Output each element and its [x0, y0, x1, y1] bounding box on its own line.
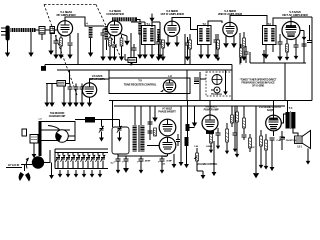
IF transformer T-3 box	[263, 26, 277, 45]
capacitor C-15	[80, 87, 85, 89]
ground speaker	[306, 157, 311, 165]
speaker magnet	[295, 136, 303, 144]
output transformer core	[289, 111, 291, 129]
wire C-26 stub	[245, 46, 247, 52]
potentiometer R-14	[196, 153, 199, 161]
wire trimmer drop 8	[92, 152, 94, 155]
ground AF input 2	[49, 98, 54, 107]
wire R-12 tail	[210, 143, 212, 146]
ground below antenna	[5, 48, 10, 57]
ground V-6	[87, 98, 92, 107]
wire C-24 drop	[271, 140, 273, 163]
ground switch	[49, 171, 54, 179]
capacitor C-26	[244, 52, 249, 54]
wire trimmer tail 9	[97, 161, 99, 169]
motor B-1	[32, 156, 44, 168]
wire C-20 feed	[161, 156, 163, 159]
T-1 primary winding	[143, 28, 146, 42]
switch lever S-1	[26, 158, 29, 169]
ground grid leak	[48, 46, 53, 55]
tube V-1	[57, 21, 72, 36]
resistor R-5	[189, 40, 192, 49]
wire mid drop A	[180, 105, 182, 107]
ground trimmer 2	[66, 170, 71, 178]
wire V-8 cathode drop	[167, 154, 169, 156]
wire AF input lead	[46, 83, 57, 85]
coil L-5	[105, 26, 109, 40]
wire R-10 out	[66, 83, 71, 85]
wire plate to B+ riser	[291, 16, 312, 18]
ground trimmer 1	[58, 170, 63, 178]
capacitor C-17	[116, 159, 121, 161]
wire B+ bus lower	[57, 69, 232, 71]
resistor R-18	[243, 118, 246, 128]
capacitor C-30	[148, 131, 153, 133]
svg-text:20 MF: 20 MF	[166, 161, 172, 163]
wire R-13 stub	[226, 123, 228, 129]
resistor R-25 on bus	[128, 58, 137, 63]
ground AF input	[44, 98, 49, 107]
wire chassis rail lower	[114, 105, 285, 107]
IF transformer T-2 box	[198, 26, 212, 45]
wire det bus	[250, 62, 306, 64]
capacitor C-6	[112, 45, 117, 47]
output transformer T-4 secondary	[291, 112, 295, 129]
wire L-4 bottom	[90, 38, 92, 48]
trimmer C-23	[70, 155, 75, 162]
wire V-4 grid2 drop	[233, 36, 235, 39]
tube V-4	[223, 22, 237, 36]
ground L-4	[88, 48, 93, 57]
wire trimmer drop B	[119, 120, 121, 127]
ground trimmer 6	[98, 170, 103, 178]
ground R-7	[241, 52, 246, 61]
wire AF input ground drop	[46, 84, 48, 99]
coil L-4	[89, 26, 93, 39]
wire T-4 top feed	[287, 101, 289, 113]
ground inside dial box	[223, 88, 228, 96]
svg-text:CHANGER UNIT: CHANGER UNIT	[49, 115, 66, 118]
ground R-12	[209, 146, 213, 153]
wire C-27 drop	[69, 84, 71, 88]
wire antenna ground drop	[7, 41, 9, 49]
ground coupling	[184, 160, 189, 168]
wire R-9 stub	[240, 44, 242, 48]
wire C-12 drop	[279, 34, 281, 42]
wire coil ground drop	[30, 32, 32, 48]
ground R-4	[160, 52, 165, 61]
wire trimmer drop 1	[57, 152, 59, 155]
ground C-12	[277, 52, 282, 61]
ground trimmer 4	[82, 170, 87, 178]
wire C-21 drop	[217, 128, 219, 133]
ground R-24	[264, 162, 269, 170]
wire R-23 tail	[249, 134, 251, 138]
capacitor C-29	[148, 122, 153, 124]
svg-text:TO GRILLE: TO GRILLE	[211, 94, 222, 96]
phono trimmer B	[117, 126, 122, 133]
wire T-2 to V-4	[208, 21, 222, 27]
antenna coil L-2	[11, 28, 36, 32]
ground C-13	[294, 52, 299, 60]
wire C-6 ground	[114, 47, 116, 52]
wire meter feed	[225, 70, 227, 88]
wire trimmer A tail	[101, 132, 103, 134]
pot arrow	[194, 156, 198, 159]
wire V-2 cathode drop	[114, 36, 116, 44]
phono trimmer A	[99, 126, 104, 133]
power transformer primary	[133, 126, 137, 152]
wire R-18 tail	[243, 106, 245, 118]
wire V-2 plate stub	[120, 34, 127, 37]
ground C-24	[270, 163, 275, 171]
wire L-5 bottom	[105, 40, 107, 50]
wire L-6 right drop	[137, 20, 140, 26]
wire R-19 tail	[260, 130, 262, 136]
wire V-9 top riser	[209, 101, 211, 116]
trimmer C-22	[65, 155, 70, 162]
dial drive frame	[42, 122, 76, 141]
ground R-1	[58, 50, 63, 59]
svg-text:PHASE INVERT: PHASE INVERT	[158, 109, 176, 113]
wire motor to changer	[44, 150, 50, 163]
svg-text:1ST IF AMPLIFIER: 1ST IF AMPLIFIER	[160, 12, 184, 16]
wire R-25 drop	[131, 63, 133, 65]
wire C-15 drop	[81, 84, 83, 88]
wire V-5 plate top	[290, 17, 292, 22]
resistor R-1	[60, 38, 63, 46]
wire coupling riser	[187, 101, 189, 125]
capacitor C-25	[242, 135, 247, 137]
ground grid rail tap	[192, 118, 197, 127]
wire V-1 plate top	[65, 17, 104, 26]
wire V-3 screen drop	[176, 36, 178, 38]
wire V-6 ground drop	[89, 96, 91, 99]
capacitor C-28	[74, 87, 79, 89]
ground R-19	[259, 161, 264, 169]
wire T-3 bottom right	[272, 45, 274, 53]
wire V-6 plate to tone box	[90, 79, 110, 83]
wire switch drop	[51, 163, 53, 172]
wire trimmer tail 4	[72, 161, 74, 169]
wire C-1 ground drop	[41, 34, 43, 40]
oscillator coil L-6	[112, 17, 137, 21]
wire trimmer drop 10	[102, 152, 104, 155]
ground V-3 bold	[165, 38, 170, 47]
wire trimmer tail 3	[67, 161, 69, 169]
ground can	[32, 150, 37, 158]
capacitor C-35	[194, 78, 199, 80]
wire AF input ground drop 2	[51, 84, 53, 99]
wire R-5 stub	[189, 34, 191, 40]
wire V-5 plate right stub	[300, 30, 304, 32]
wire trimmer drop 5	[77, 152, 79, 155]
dial meter M-1	[212, 75, 222, 85]
trimmer C-1	[39, 27, 45, 35]
wire long ground drop	[255, 106, 257, 168]
trimmer C-26	[85, 155, 90, 162]
ground C-19	[139, 166, 144, 174]
wire R-2 drop	[109, 36, 111, 38]
wire R-3 drop	[121, 35, 123, 38]
wire T-1 to V-3	[152, 22, 160, 27]
dashed tuner enclosure right diagonal	[96, 5, 122, 61]
power plug P-1	[19, 165, 31, 182]
wire V-3 cathode drop	[167, 36, 169, 38]
wire pulley stub	[68, 135, 75, 137]
svg-text:TONE REGISTER CONTROL: TONE REGISTER CONTROL	[124, 83, 157, 87]
trimmer C-27	[90, 155, 95, 162]
wire chassis rail upper	[109, 100, 312, 102]
wire T-2 bottom right	[207, 45, 209, 51]
svg-text:CONVERTER: CONVERTER	[106, 12, 124, 16]
wire C-1 to V-1 grid	[45, 29, 52, 31]
wire bus mid drop	[186, 70, 188, 101]
resistor R-9	[240, 48, 243, 57]
wire can drop	[33, 143, 35, 150]
wire pot ground	[197, 170, 203, 172]
wire T-4 to speaker	[293, 129, 298, 137]
ground C-4	[67, 50, 72, 59]
wire trimmer tail 7	[87, 161, 89, 169]
wire C-25 tail	[243, 137, 245, 140]
ground V-3 screen bold	[174, 38, 179, 47]
svg-text:117 V.AC 60: 117 V.AC 60	[8, 164, 20, 167]
resistor R-4	[162, 40, 165, 48]
capacitor C-21	[216, 133, 221, 135]
wire rectifier in	[147, 145, 159, 147]
resistor R-3	[120, 38, 123, 46]
tube V-3	[164, 21, 179, 36]
wire C-22 drop	[234, 106, 236, 133]
wire R-14 tail	[196, 148, 198, 153]
wire C-3 drop	[55, 35, 57, 41]
wire trimmer bus bottom	[55, 168, 108, 170]
trimmer C-20	[55, 155, 60, 162]
oscillator padder coil L-7	[138, 22, 141, 35]
wire trimmer tail 10	[102, 161, 104, 169]
electrolytic can C-16	[30, 135, 38, 144]
wire trimmer tail 8	[92, 161, 94, 169]
capacitor C-4	[68, 43, 73, 45]
resistor R-21	[154, 128, 157, 136]
trimmer C-21	[60, 155, 65, 162]
ground C-3	[53, 50, 58, 59]
wire C-19 feed	[140, 156, 142, 159]
wire trimmer tail 5	[77, 161, 79, 169]
ground R-2	[107, 52, 112, 61]
wire C-28 drop	[75, 84, 77, 88]
svg-text:VOLUME CONTROL: VOLUME CONTROL	[197, 163, 218, 166]
wire R-22 stub	[231, 106, 233, 115]
wire V-4 screen to bus	[239, 33, 241, 65]
label underline	[6, 167, 22, 169]
wire tone tube arrow	[160, 89, 164, 92]
ground long drop	[253, 168, 259, 178]
svg-text:“TONES” TUNER OPERATED DIRECT: “TONES” TUNER OPERATED DIRECT	[240, 79, 278, 82]
capacitor C-34 plates	[176, 140, 180, 142]
ground L-7	[137, 50, 142, 59]
ground volume	[179, 158, 184, 166]
svg-text:LS-1: LS-1	[297, 145, 302, 148]
ground T-2	[198, 50, 203, 59]
tube V-10 output	[266, 115, 282, 131]
resistor R-12	[210, 134, 213, 143]
wire T-1 primary top	[144, 22, 146, 26]
wire V-5 cathode drop	[286, 39, 288, 44]
wire V-2 plate drop	[130, 33, 132, 66]
capacitor C-24	[270, 138, 275, 140]
ground C-6	[112, 52, 117, 61]
wire V-10 top	[273, 101, 275, 116]
resistor R-6	[217, 40, 220, 49]
ground C-28	[73, 98, 78, 107]
tube V-6	[82, 83, 96, 97]
wire trimmer drop 4	[72, 152, 74, 155]
ground V-4 cathode	[223, 39, 229, 48]
tube V-9 cathode blob	[206, 131, 214, 134]
wire det bus left riser	[249, 52, 251, 63]
trimmer C-29	[100, 155, 105, 162]
wire AVC riser	[284, 63, 286, 101]
ground trimmer 3	[74, 170, 79, 178]
resistor R-10 horizontal	[57, 81, 66, 87]
wire V-1 screen drop	[69, 35, 71, 42]
ground C-5	[100, 52, 105, 61]
ground R-10 tail	[61, 98, 66, 107]
wire C-17 feed	[117, 154, 119, 159]
wire speaker ground drop	[307, 149, 309, 158]
ground C-9	[156, 52, 161, 61]
T-3 secondary winding	[271, 28, 274, 42]
tube V-9	[202, 115, 218, 131]
wire coupling mid	[187, 131, 189, 137]
wire C-34 lead	[177, 134, 179, 140]
svg-text:40 MF: 40 MF	[145, 160, 151, 163]
wire V-2 top to L-6	[114, 20, 116, 22]
wire V-7 side drop	[173, 154, 175, 160]
ground T-1 secondary	[149, 50, 154, 59]
capacitor C-8	[158, 40, 163, 42]
ground V-7 side	[172, 160, 177, 168]
capacitor C-2	[50, 27, 55, 34]
capacitor C-9	[156, 42, 161, 44]
wire blob left lead	[75, 119, 85, 121]
coupling capacitor blob C-33	[186, 124, 190, 131]
dial lamp I-1	[214, 87, 220, 93]
wire det ground drop	[263, 50, 265, 63]
T-2 primary winding	[199, 28, 202, 42]
wire R-17 stub	[236, 106, 238, 112]
output transformer T-4 primary	[286, 112, 290, 129]
svg-text:FROM RADIO CHASSIS IN PLACE: FROM RADIO CHASSIS IN PLACE	[242, 82, 276, 85]
ground T-3	[263, 50, 268, 59]
wire T-1 bottom left	[144, 45, 146, 51]
power transformer secondary	[140, 126, 144, 152]
svg-text:POWER AMP: POWER AMP	[204, 108, 219, 112]
wire bus right drop	[231, 65, 233, 101]
wire V-2 grid left	[103, 28, 107, 30]
ground V-2 bold	[124, 36, 130, 45]
ground C-27	[67, 98, 72, 107]
wire grid rail tap	[194, 106, 196, 118]
speaker cone	[302, 131, 311, 149]
ground C-7	[132, 54, 136, 61]
ground V-4 screen bypass	[231, 39, 237, 48]
dial drive bar	[39, 121, 42, 156]
resistor R-19	[260, 136, 263, 146]
svg-text:6AQ5: 6AQ5	[267, 109, 274, 112]
trimmer C-25	[80, 155, 85, 162]
wire blob right lead	[95, 119, 120, 121]
wire grid leak drop	[50, 34, 52, 47]
wire trimmer bus top	[55, 148, 108, 150]
loop antenna L-1 core	[6, 26, 10, 41]
ground C-20	[160, 166, 165, 174]
svg-text:1-05041: 1-05041	[206, 145, 214, 148]
svg-text:RF AMPLIFIER: RF AMPLIFIER	[56, 13, 76, 17]
wire volume drop	[180, 106, 182, 158]
capacitor C-7	[132, 48, 137, 50]
wire bus left vert	[44, 65, 46, 69]
ground C-15	[79, 98, 84, 107]
wire trimmer B tail	[119, 132, 121, 134]
ground T-2 secondary	[205, 50, 210, 59]
tube V-5	[282, 22, 300, 40]
wire T-1 bottom right	[151, 45, 153, 51]
capacitor C-5	[101, 33, 106, 35]
T-2 secondary winding	[206, 28, 209, 42]
dial cord arc	[48, 126, 62, 137]
resistor R-24	[265, 140, 268, 150]
wire V-7 grid column	[149, 106, 151, 140]
tube V-7	[159, 119, 176, 136]
ground C-10	[185, 52, 190, 61]
wire R-10 tail drop	[63, 86, 65, 98]
switch S-1 block	[41, 66, 46, 71]
ground mid A	[212, 168, 217, 176]
resistor R-13	[226, 129, 229, 142]
capacitor C-32	[307, 41, 312, 43]
wire trimmer tail 6	[82, 161, 84, 169]
wire R-6 stub	[217, 34, 219, 40]
wire trimmer bus second	[55, 151, 108, 153]
wire C-19 ground	[140, 161, 142, 166]
wire C-31b	[281, 138, 285, 140]
wire meter to bus	[200, 78, 206, 80]
ground C-21	[216, 142, 220, 149]
wire B+ riser	[311, 17, 313, 101]
ground below coil L-2	[28, 48, 33, 57]
svg-text:ON-OFF SW: ON-OFF SW	[286, 140, 297, 142]
capacitor C-31	[280, 137, 285, 139]
wire bus to tone box	[108, 70, 110, 78]
ground C-17	[116, 166, 121, 174]
wire blob to grid	[190, 127, 195, 129]
wire T-3 bottom left	[265, 45, 267, 51]
ground trimmer B	[117, 134, 122, 142]
tube V-8 rectifier	[159, 137, 176, 154]
wire trimmer drop 3	[67, 152, 69, 155]
wire V-1 cathode	[60, 36, 62, 39]
ground R-6	[216, 54, 220, 61]
resistor R-22	[231, 115, 234, 123]
dashed tuner enclosure top edge	[44, 4, 96, 6]
capacitor C-27	[68, 87, 73, 89]
ground trimmer 5	[90, 170, 95, 178]
tone register box	[109, 78, 190, 94]
wire V-10 cathode drop	[273, 131, 275, 136]
